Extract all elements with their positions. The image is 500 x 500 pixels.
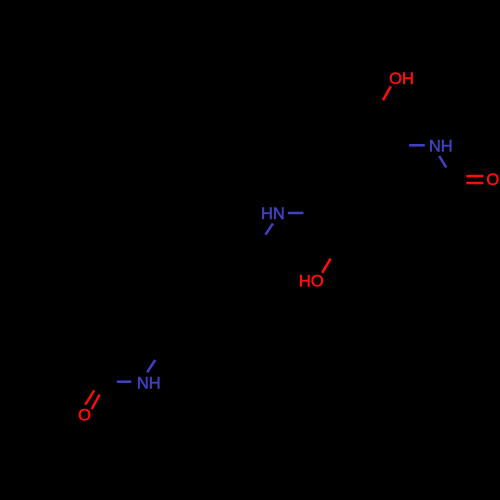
svg-text:HO: HO [299, 273, 324, 291]
bond N-CH2 (center amine, down-left) [266, 223, 273, 234]
svg-text:NH: NH [429, 138, 453, 156]
double bond C=O (top right carbonyl) line 2 [466, 182, 483, 184]
svg-text:OH: OH [389, 70, 414, 88]
bond C-O (phenol, to OH top) [383, 86, 391, 100]
double bond C=O (bottom left carbonyl) line 1 [85, 390, 94, 404]
svg-text:NH: NH [137, 375, 161, 393]
bond C-O (phenol, to HO center) [322, 259, 330, 273]
bond C-N (aryl to amide N, bottom left) [117, 380, 131, 383]
bond N-C carbonyl (top right) [439, 156, 446, 167]
double bond C=O (top right carbonyl) line 1 [466, 175, 483, 177]
double bond C=O (bottom left carbonyl) line 2 [92, 395, 100, 409]
svg-text:O: O [78, 407, 91, 425]
bond C-N (aryl to amide N, top right) [409, 144, 425, 147]
svg-text:O: O [486, 171, 499, 189]
svg-text:HN: HN [261, 205, 285, 223]
bond N-C (bottom left, up-right) [147, 360, 155, 372]
bond N-C (center amine, to right) [288, 212, 304, 215]
